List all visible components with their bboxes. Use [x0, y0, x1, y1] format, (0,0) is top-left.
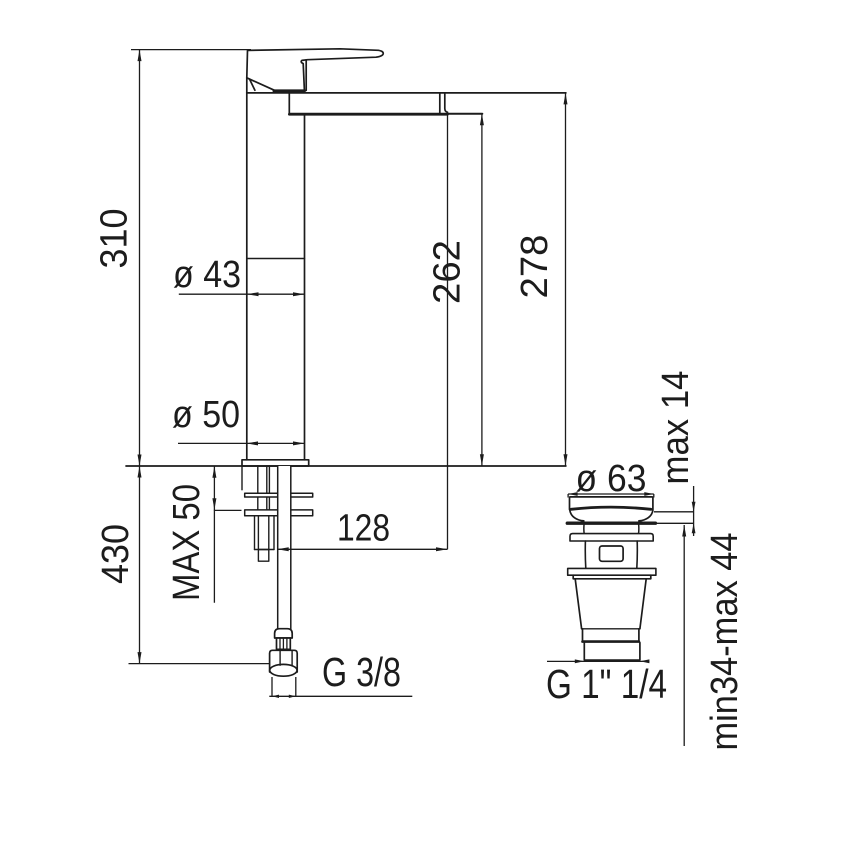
min34-max44 vertical dimension line: [683, 525, 685, 746]
svg-text:ø 63: ø 63: [576, 458, 647, 500]
drain thread groove (thick): [583, 640, 639, 643]
arrow dia50 left: [247, 441, 259, 445]
arrow dia43 right: [293, 292, 305, 296]
dia63 dimension line: [568, 494, 654, 498]
svg-text:278: 278: [514, 235, 556, 299]
arrow dia63 right: [644, 492, 654, 496]
handle-body gap shadow line: [274, 89, 304, 92]
arrow MAX50 up: [212, 466, 216, 478]
arrow G3/8 left (points right): [272, 695, 279, 698]
spout bottom line (continues right as 262 extension line): [289, 113, 482, 115]
arrow max14 up: [692, 523, 696, 533]
128 dimension line: [277, 548, 447, 550]
spout end inner cap line: [439, 94, 441, 114]
arrow 128 left: [277, 547, 289, 551]
drain flange plate (thick): [567, 522, 655, 525]
arrow MAX50 down: [212, 498, 216, 510]
spout end outer edge with aerator step: [445, 94, 448, 114]
arrow 430 top: [138, 466, 142, 478]
hose ribbed crimp section: [277, 638, 291, 649]
drain lower flange step: [573, 575, 651, 579]
counter hole edge below deck: [241, 466, 243, 490]
arrow 310 top: [138, 50, 142, 62]
arrow dia63 left: [568, 492, 578, 496]
G3/8 extension lines: [272, 677, 296, 696]
svg-text:310: 310: [93, 209, 135, 269]
mounting nut tube below washer: [255, 516, 275, 550]
drain lower flange: [568, 568, 656, 575]
handle bottom-left notch line: [250, 79, 255, 90]
spout bottom thick segment: [289, 113, 447, 116]
drain cap concave neck right: [639, 510, 653, 521]
drain upper nut plate: [570, 534, 653, 541]
262 vertical dimension line: [481, 114, 483, 466]
handle left edge lower segment: [246, 78, 248, 93]
svg-text:ø 50: ø 50: [172, 394, 240, 436]
310/430 vertical dimension line: [139, 50, 141, 664]
arrow 278 top: [564, 93, 568, 105]
body column right edge: [304, 114, 306, 460]
arrow G1 1/4 left (points right): [575, 659, 585, 663]
arrow 128 right: [436, 547, 448, 551]
G3/8 hex nut: [270, 650, 298, 672]
arrow max14 down: [692, 502, 696, 512]
MAX 50 extension line (washer top): [214, 509, 242, 511]
arrow G3/8 right (points left): [289, 695, 296, 698]
svg-text:MAX 50: MAX 50: [166, 484, 208, 601]
counter deck line: [126, 465, 566, 467]
arrow G1 1/4 right (points left): [640, 659, 650, 663]
body seam line: [247, 258, 305, 260]
supply hose: [278, 466, 291, 629]
faucet lever handle outline: [247, 49, 383, 91]
128 right extension line (from spout outlet): [447, 114, 449, 550]
svg-text:430: 430: [95, 524, 137, 584]
arrow 278 bottom: [564, 454, 568, 466]
drain taper bottom line: [582, 628, 640, 630]
G3/8 dimension line: [269, 695, 412, 697]
threaded shank lines under deck: [258, 466, 270, 516]
mounting stud end block: [258, 550, 268, 562]
overflow square hole: [600, 546, 624, 561]
arrow 310 bottom: [138, 455, 142, 467]
G1 1/4 dimension line: [547, 660, 649, 662]
arrow 430 bottom: [138, 652, 142, 664]
drain body with overflow: [585, 541, 637, 568]
top extension line (handle top): [131, 49, 251, 51]
svg-text:ø 43: ø 43: [173, 254, 241, 296]
arrow min34 up: [682, 525, 686, 537]
drain tapered body: [575, 579, 646, 629]
drain cap dished top surface: [571, 507, 651, 509]
svg-text:128: 128: [337, 508, 390, 550]
handle stem right edge: [305, 60, 307, 91]
spout top line (body top, continues right as 278 extension line): [247, 92, 566, 94]
MAX 50 vertical dimension line: [213, 466, 215, 603]
svg-text:G 1" 1/4: G 1" 1/4: [546, 661, 667, 707]
arrow dia50 right: [293, 441, 305, 445]
278 vertical dimension line: [565, 93, 567, 466]
bottom extension line (430): [129, 663, 270, 665]
drain cap top block: [570, 497, 653, 510]
drain thread upper section: [583, 629, 639, 641]
arrow dia43 left: [247, 292, 259, 296]
drain cap concave neck left: [570, 510, 584, 521]
svg-text:min34-max 44: min34-max 44: [704, 533, 746, 751]
svg-text:262: 262: [426, 240, 468, 304]
hose ferrule collar: [275, 629, 293, 638]
base flange: [242, 460, 309, 466]
arrow 262 bottom: [480, 454, 484, 466]
max14 top extension line (cap rim): [654, 511, 694, 513]
spout left edge: [288, 94, 290, 114]
dia43 dimension line: [179, 293, 305, 295]
arrow 262 top: [480, 114, 484, 126]
drain thread lower section: [584, 643, 640, 661]
max14 bottom extension line (flange underside): [655, 522, 694, 524]
body column left edge: [246, 93, 248, 460]
svg-text:max 14: max 14: [655, 371, 697, 485]
dia50 dimension line: [178, 442, 305, 444]
mounting washer lower: [245, 510, 313, 516]
svg-text:G 3/8: G 3/8: [322, 649, 401, 695]
max14 vertical dimension line: [693, 486, 695, 536]
hex nut bottom ellipse: [270, 664, 297, 676]
mounting washer upper: [245, 493, 313, 497]
drain neck below flange: [584, 525, 639, 534]
